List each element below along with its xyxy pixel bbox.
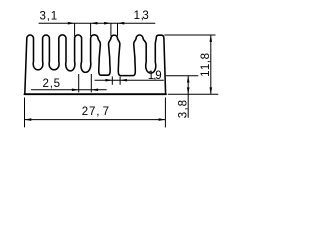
heatsink profile outline xyxy=(25,35,166,94)
svg-text:11,8: 11,8 xyxy=(200,53,212,77)
svg-text:27,7: 27,7 xyxy=(82,106,109,118)
arrowhead 1,3 left (points right at x=109.6) xyxy=(104,22,111,25)
arrowhead 11,8 bottom (points down) xyxy=(210,87,213,94)
arrowhead 1,9 left (points right at x=112.3) xyxy=(106,79,113,82)
arrowhead 1,3 right (points left at x=116.4) xyxy=(118,22,125,25)
svg-text:1,3: 1,3 xyxy=(134,10,149,22)
base bottom edge (thick) xyxy=(25,93,166,95)
1,9 extension line left (fin6 root left) xyxy=(111,76,113,84)
arrowhead 27,7 right (points right) xyxy=(159,118,166,121)
arrowhead 3,1 left (points right at x=74) xyxy=(68,22,75,25)
11,8 top extension line xyxy=(164,34,215,36)
arrowhead 1,9 right (points left at x=120.1) xyxy=(120,79,127,82)
arrowhead 3,1 right (points left at x=89.8) xyxy=(91,22,98,25)
3,8 dimension line xyxy=(187,76,189,118)
arrowhead 3,8 bottom (points down) xyxy=(187,87,190,94)
1,9 extension line right (fin6 root right) xyxy=(119,76,121,84)
2,5 extension line right xyxy=(90,74,92,92)
arrowhead 2,5 right (points left at x=91.2) xyxy=(91,89,98,92)
svg-text:1,9: 1,9 xyxy=(148,70,162,82)
27,7 extension line left xyxy=(24,98,26,128)
extension line fin5 left (3,1) xyxy=(90,23,92,36)
extension line fin6 left (1,3) xyxy=(110,23,112,36)
2,5 dimension line xyxy=(31,89,107,91)
arrowhead 11,8 top (points up) xyxy=(210,35,213,42)
27,7 dimension line xyxy=(25,119,166,121)
svg-text:3,8: 3,8 xyxy=(177,100,189,118)
bottom extension line for 3,8 and 11,8 xyxy=(168,93,219,95)
arrowhead 27,7 left (points left) xyxy=(25,118,32,121)
svg-text:3,1: 3,1 xyxy=(40,10,58,22)
extension line fin4 left (3,1) xyxy=(74,23,76,36)
arrowhead 2,5 left (points right at x=78.6) xyxy=(72,89,79,92)
svg-text:2,5: 2,5 xyxy=(43,78,61,90)
11,8 dimension line xyxy=(210,35,212,94)
27,7 extension line right xyxy=(164,98,166,128)
top dimension line (shared by 3,1 and 1,3) xyxy=(39,22,156,24)
1,9 dimension line (fin6 root) xyxy=(95,79,164,81)
extension line fin6 right (1,3) xyxy=(117,23,119,36)
2,5 extension line left xyxy=(78,74,80,92)
3,8 top extension line xyxy=(166,75,199,77)
arrowhead 3,8 top (points up) xyxy=(187,76,190,83)
